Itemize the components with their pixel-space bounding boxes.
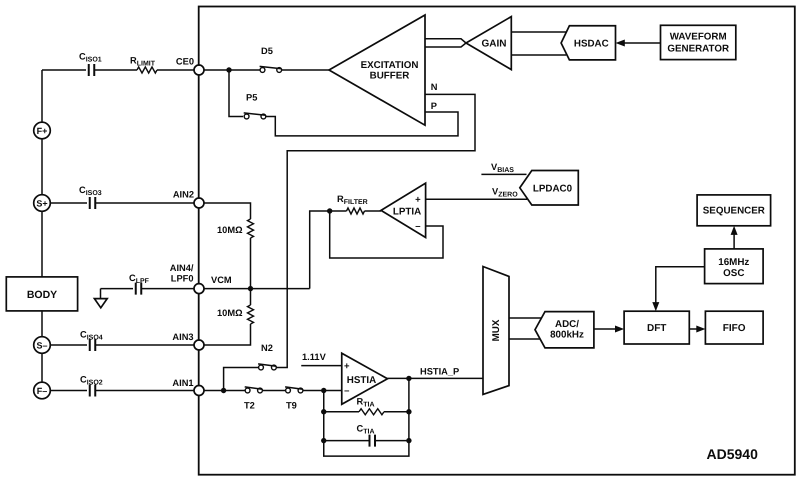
svg-text:BODY: BODY — [27, 289, 57, 301]
svg-text:CE0: CE0 — [176, 57, 194, 67]
svg-text:+: + — [344, 361, 350, 372]
wire 1.11V stub — [301, 365, 342, 367]
op-amp HSTIA — [342, 353, 388, 404]
switch N2 — [258, 343, 276, 370]
wire N branch — [224, 94, 475, 390]
wire AIN3 row — [50, 344, 194, 346]
switch T9 — [285, 387, 303, 411]
svg-text:F–: F– — [37, 386, 48, 396]
pin CE0 — [176, 57, 204, 76]
svg-text:LPF0: LPF0 — [171, 273, 194, 283]
svg-text:F+: F+ — [37, 126, 48, 136]
svg-text:N: N — [431, 82, 438, 92]
wire VCM row — [101, 288, 195, 290]
resistor 10M upper — [248, 219, 254, 238]
block 16MHz OSC — [705, 249, 764, 284]
svg-text:+: + — [415, 195, 421, 206]
amplifier GAIN — [466, 17, 511, 70]
block WAVEFORM GENERATOR — [661, 25, 736, 59]
wire waveform generator to hsdac — [624, 42, 661, 44]
svg-text:WAVEFORM: WAVEFORM — [670, 32, 727, 43]
ADC 800kHz — [535, 312, 594, 348]
capacitor CISO1 — [89, 64, 95, 76]
wire CE0 row — [42, 69, 194, 71]
svg-text:1.11V: 1.11V — [302, 352, 327, 362]
svg-text:BUFFER: BUFFER — [370, 71, 410, 82]
svg-text:HSTIA_P: HSTIA_P — [420, 367, 459, 377]
svg-text:–: – — [344, 386, 349, 397]
wire VCM row inside — [204, 288, 310, 290]
svg-text:AIN4/: AIN4/ — [170, 263, 194, 273]
wire buffer to gain — [425, 39, 466, 47]
capacitor CISO2 — [90, 385, 96, 397]
svg-text:LPDAC0: LPDAC0 — [533, 183, 573, 194]
wire OSC to DFT — [656, 267, 705, 303]
chip boundary AD5940 — [199, 7, 795, 475]
pin AIN1 — [172, 378, 204, 396]
pin AIN4/LPF0 — [170, 263, 204, 294]
junction HSTIA minus — [321, 388, 326, 393]
capacitor CTIA — [324, 440, 409, 442]
DAC LPDAC0 — [520, 171, 579, 206]
block DFT — [624, 311, 689, 344]
wire CE0 to excitation buffer — [204, 69, 329, 71]
op-amp excitation buffer — [329, 15, 425, 125]
wire OSC to SEQUENCER — [733, 234, 735, 249]
svg-text:AIN1: AIN1 — [172, 378, 193, 388]
node F+ — [34, 122, 51, 139]
node F- — [34, 382, 51, 399]
svg-text:T9: T9 — [286, 401, 297, 411]
junction CTIA left — [321, 438, 326, 443]
wire gain to hsdac — [511, 32, 566, 55]
capacitor CISO3 — [90, 197, 96, 209]
junction CE0 — [226, 67, 231, 72]
wire LPTIA plus to VZERO — [426, 198, 527, 200]
svg-text:N2: N2 — [261, 343, 273, 353]
wire HSTIA output HSTIA_P — [388, 377, 484, 379]
resistor 10M lower — [204, 289, 251, 345]
block SEQUENCER — [697, 195, 771, 226]
junction RTIA right — [406, 409, 411, 414]
node S- — [34, 337, 51, 354]
label VBIAS — [481, 173, 526, 175]
junction CTIA right — [406, 438, 411, 443]
wire ADC to DFT — [594, 328, 616, 330]
svg-text:GENERATOR: GENERATOR — [667, 43, 729, 54]
svg-text:GAIN: GAIN — [482, 38, 507, 49]
svg-text:16MHz: 16MHz — [718, 257, 749, 268]
wire AIN1 row inside — [204, 390, 342, 392]
junction VCM — [248, 286, 253, 291]
svg-text:FIFO: FIFO — [723, 323, 746, 334]
wire AIN2 row — [50, 202, 194, 204]
svg-text:800kHz: 800kHz — [550, 330, 584, 341]
wire HSTIA feedback verticals — [324, 378, 409, 456]
svg-text:HSTIA: HSTIA — [347, 375, 376, 386]
svg-text:OSC: OSC — [723, 268, 744, 279]
svg-text:S–: S– — [36, 340, 47, 350]
svg-text:10MΩ: 10MΩ — [217, 308, 243, 318]
junction RTIA left — [321, 409, 326, 414]
wire AIN1 row — [50, 390, 194, 392]
switch D5 — [260, 46, 282, 72]
pin AIN3 — [172, 332, 204, 350]
resistor RTIA — [324, 411, 409, 413]
svg-text:AIN3: AIN3 — [172, 332, 193, 342]
DAC HSDAC — [561, 26, 615, 60]
svg-text:DFT: DFT — [647, 323, 666, 334]
capacitor CISO4 — [90, 339, 96, 351]
svg-text:SEQUENCER: SEQUENCER — [703, 206, 765, 217]
wire AIN2 to 10M chain — [204, 203, 251, 289]
resistor RFILTER — [347, 208, 365, 214]
wire DFT to FIFO — [689, 328, 697, 330]
node S+ — [34, 195, 51, 212]
block BODY — [6, 277, 77, 311]
ground — [94, 289, 107, 308]
svg-text:ADC/: ADC/ — [555, 319, 579, 330]
switch T2 — [244, 387, 262, 411]
switch P5 — [244, 93, 266, 119]
block FIFO — [705, 311, 763, 344]
svg-text:–: – — [415, 221, 420, 232]
op-amp LPTIA — [381, 183, 426, 237]
svg-text:EXCITATION: EXCITATION — [361, 60, 419, 71]
svg-text:T2: T2 — [244, 401, 255, 411]
svg-text:P5: P5 — [246, 93, 257, 103]
mux MUX — [483, 267, 509, 395]
capacitor CLPF — [136, 283, 142, 295]
svg-text:D5: D5 — [261, 46, 273, 56]
svg-text:MUX: MUX — [491, 319, 502, 341]
svg-text:AD5940: AD5940 — [707, 446, 759, 462]
pin AIN2 — [173, 190, 204, 209]
wire MUX to ADC — [509, 318, 541, 339]
wire left bus vertical — [41, 70, 43, 382]
junction RFILTER node — [327, 208, 332, 213]
svg-text:AIN2: AIN2 — [173, 190, 194, 200]
wire P branch — [229, 70, 458, 136]
svg-text:P: P — [431, 101, 437, 111]
resistor RLIMIT — [137, 67, 157, 73]
junction HSTIA_P — [406, 376, 411, 381]
wire VCM to RFILTER node — [310, 211, 381, 289]
svg-text:VCM: VCM — [211, 275, 232, 285]
svg-text:LPTIA: LPTIA — [393, 207, 421, 218]
junction AIN1 N2 — [221, 388, 226, 393]
svg-text:10MΩ: 10MΩ — [217, 225, 243, 235]
svg-text:HSDAC: HSDAC — [574, 38, 609, 49]
wire LPTIA feedback — [330, 211, 443, 258]
svg-text:S+: S+ — [36, 198, 47, 208]
